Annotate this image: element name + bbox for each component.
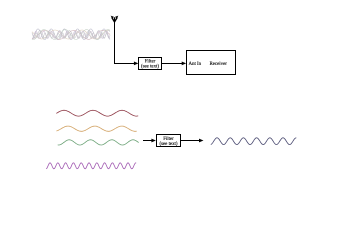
signal wave c6 (gray) in composite [32, 30, 110, 38]
signal wave c7 (gray2) in composite [32, 33, 110, 39]
svg-text:(see text): (see text) [141, 65, 159, 70]
signal wave c5 (purple) in composite [32, 31, 110, 38]
signal wave c1 (navy) in composite [32, 29, 110, 40]
arrowhead into receiver [182, 62, 187, 66]
wire filter FL1 to receiver [162, 63, 183, 65]
signal wave c2 (maroon) in composite [32, 30, 110, 39]
composite signal band (many signals at antenna) [32, 29, 110, 40]
receiver U1 box [187, 51, 236, 75]
wire filter FL2 output [181, 140, 200, 142]
signal wave f2 (tan) [56, 126, 136, 131]
wire antenna to filter FL1 [115, 21, 136, 64]
arrowhead at filter FL2 output [199, 139, 204, 143]
signal wave f4 (purple) [46, 163, 136, 169]
signal wave c3 (tan) in composite [32, 30, 110, 39]
output signal wave (navy) [211, 138, 296, 145]
arrowhead into filter FL1 [134, 62, 139, 66]
svg-text:Ant In: Ant In [189, 62, 202, 67]
filter FL1 box [139, 58, 162, 70]
signal wave f1 (dark red) [56, 110, 138, 116]
antenna [111, 16, 119, 22]
svg-text:Receiver: Receiver [210, 62, 228, 67]
svg-text:(see text): (see text) [159, 142, 177, 147]
filter FL2 box [157, 135, 181, 147]
signal wave c4 (green) in composite [32, 30, 110, 40]
wire signals into filter FL2 [143, 140, 153, 142]
signal wave f3 (green) [58, 140, 139, 145]
arrowhead into filter FL2 [151, 139, 156, 143]
